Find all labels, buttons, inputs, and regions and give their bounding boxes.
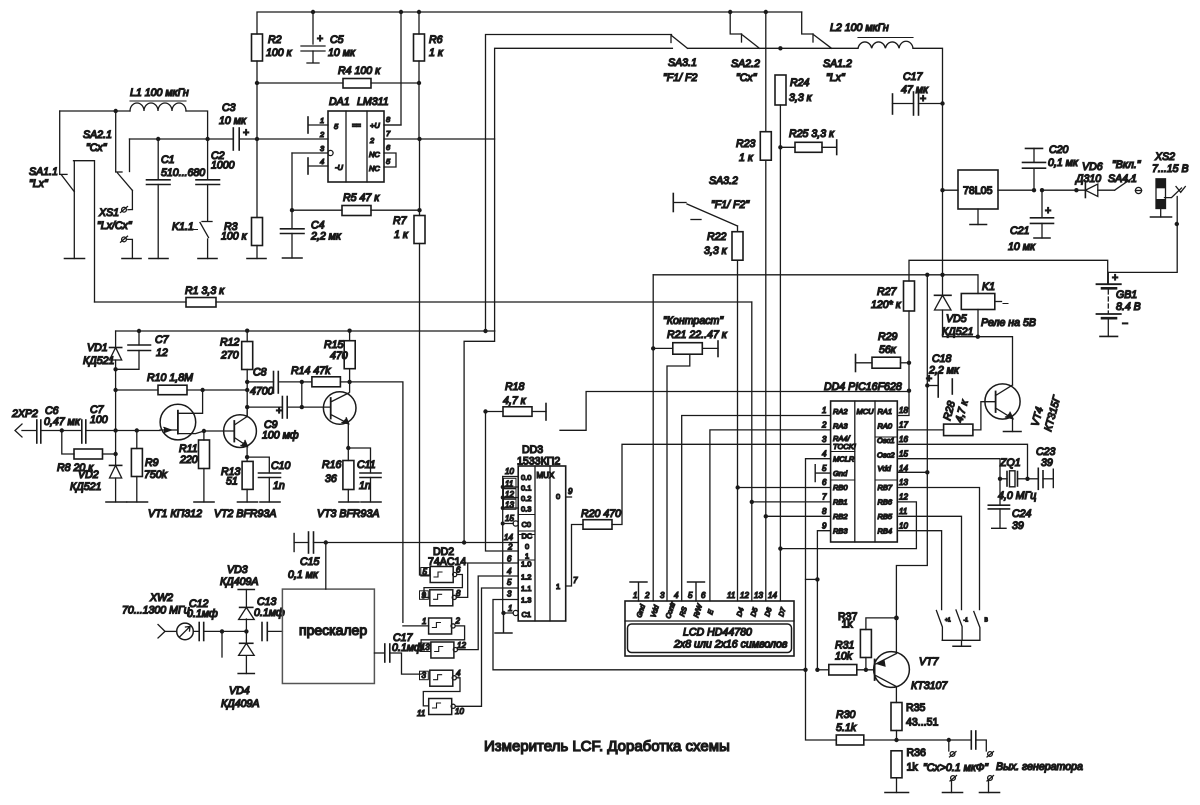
resistor R24	[775, 75, 813, 105]
DD3 output pin 9	[566, 487, 573, 497]
svg-text:1.3: 1.3	[521, 596, 531, 605]
wire inv6 out to DD3 1.1	[455, 588, 518, 706]
svg-text:R35: R35	[906, 702, 926, 714]
display LCD HD44780	[625, 601, 794, 656]
connector XS2 power jack	[1151, 151, 1189, 217]
svg-text:1k: 1k	[907, 762, 919, 774]
capacitor C12	[187, 598, 246, 641]
svg-text:5: 5	[688, 591, 693, 600]
svg-text:0: 0	[556, 492, 560, 501]
svg-text:C20: C20	[1049, 144, 1069, 156]
svg-text:2х8 или 2х16 символов: 2х8 или 2х16 символов	[673, 639, 788, 651]
wire pin18 RA1	[897, 391, 909, 416]
svg-text:R1 3,3 к: R1 3,3 к	[185, 285, 225, 297]
svg-text:3: 3	[660, 591, 665, 600]
wire +5 bus down	[896, 275, 927, 618]
switch SA2.1	[83, 111, 132, 210]
resistor R4	[338, 65, 381, 88]
ground SA1.1	[65, 258, 85, 260]
wire R35 bottom node	[896, 731, 898, 741]
svg-text:SA2.2: SA2.2	[731, 58, 760, 70]
resistor R16	[322, 448, 354, 502]
resistor R37	[838, 611, 896, 670]
svg-text:КТ3107: КТ3107	[911, 680, 948, 692]
svg-text:12: 12	[899, 493, 908, 502]
svg-text:1n: 1n	[273, 480, 285, 492]
svg-text:VD6: VD6	[1082, 161, 1103, 173]
wire pin17 RA0 to R28	[897, 429, 943, 431]
svg-text:R21 22..47 к: R21 22..47 к	[667, 329, 728, 341]
svg-text:5: 5	[822, 464, 827, 473]
svg-text:R18: R18	[505, 381, 525, 393]
svg-text:0.1мф: 0.1мф	[392, 642, 423, 654]
multiplexer DD3 1533КП2	[517, 444, 566, 621]
inverter DD2.5 pins 3 4	[420, 669, 462, 686]
voltage regulator 78L05	[943, 170, 1033, 225]
svg-text:"Сх": "Сх"	[736, 72, 758, 84]
svg-text:14: 14	[768, 591, 777, 600]
capacitor C7 100	[82, 404, 160, 443]
transistor VT1	[160, 390, 234, 440]
svg-text:2ХР2: 2ХР2	[11, 408, 38, 420]
svg-text:MCU: MCU	[857, 407, 875, 416]
wire inv4 out to DD3 1.2	[458, 576, 519, 650]
svg-text:100 к: 100 к	[221, 231, 248, 243]
resistor R13	[221, 457, 253, 502]
capacitor C1	[147, 139, 206, 259]
svg-text:RB5: RB5	[878, 512, 893, 521]
op-amp DA1 comparator	[328, 96, 389, 182]
svg-text:C8: C8	[253, 367, 267, 379]
wire RA2 to LCD RS	[682, 416, 831, 602]
svg-text:12: 12	[740, 591, 749, 600]
svg-text:RB3: RB3	[833, 527, 848, 536]
svg-text:1: 1	[822, 406, 826, 415]
svg-text:R5 47 к: R5 47 к	[343, 192, 380, 204]
svg-text:VD3: VD3	[227, 564, 248, 576]
svg-text:K1.1: K1.1	[172, 221, 194, 233]
diode VD5	[935, 275, 1013, 385]
inductor L2	[830, 22, 913, 48]
svg-text:"Вкл.": "Вкл."	[1112, 159, 1142, 171]
svg-text:5.1k: 5.1k	[836, 722, 857, 734]
resistor R14	[291, 365, 350, 387]
svg-text:220: 220	[179, 454, 198, 466]
wire DA1 pin3 down	[291, 153, 293, 210]
svg-text:14: 14	[504, 533, 513, 542]
svg-text:1533КП2: 1533КП2	[517, 456, 560, 468]
svg-text:RB6: RB6	[878, 498, 893, 507]
resistor R6	[414, 34, 444, 61]
gnd terminal DD4 pin5	[815, 465, 830, 482]
resistor R25	[780, 128, 836, 155]
svg-text:13: 13	[899, 478, 908, 487]
wire A bus to DD3 pin2	[486, 412, 519, 552]
wire top +U rail	[257, 12, 802, 34]
svg-text:39: 39	[1012, 520, 1024, 532]
svg-text:510...680: 510...680	[161, 167, 205, 179]
svg-text:0.1мф: 0.1мф	[254, 607, 285, 619]
svg-text:1000: 1000	[211, 160, 235, 172]
svg-text:2: 2	[319, 130, 325, 139]
svg-text:LCD HD44780: LCD HD44780	[683, 627, 752, 639]
svg-text:R2: R2	[268, 34, 282, 46]
svg-text:R16: R16	[322, 459, 342, 471]
svg-text:1n: 1n	[359, 480, 371, 492]
svg-text:DD4 PIC16F628: DD4 PIC16F628	[824, 381, 902, 393]
svg-text:R27: R27	[877, 286, 898, 298]
svg-text:2,2 мк: 2,2 мк	[310, 231, 342, 243]
svg-text:51: 51	[226, 476, 238, 488]
svg-text:SA3.2: SA3.2	[709, 175, 738, 187]
svg-text:R24: R24	[790, 77, 810, 89]
svg-text:C7: C7	[155, 334, 170, 346]
svg-text:Vdd: Vdd	[878, 464, 892, 473]
ground C11	[361, 501, 381, 503]
svg-text:1: 1	[633, 591, 637, 600]
wire C15 to prescaler	[325, 543, 327, 590]
wire inv5 out wrap to inv6	[423, 678, 460, 706]
svg-text:RB0: RB0	[833, 483, 848, 492]
svg-text:2: 2	[369, 136, 375, 145]
capacitor C15	[288, 532, 326, 581]
svg-text:C1: C1	[161, 154, 175, 166]
wire L1 node row	[60, 111, 208, 139]
resistor R22	[704, 231, 743, 260]
relay contact K1.1	[172, 221, 212, 259]
resistor R20	[581, 444, 831, 529]
svg-text:"F1/ F2": "F1/ F2"	[711, 199, 750, 211]
svg-text:0: 0	[525, 542, 529, 551]
svg-text:VD2: VD2	[78, 469, 99, 481]
svg-text:8: 8	[456, 589, 461, 598]
svg-text:1: 1	[320, 116, 324, 125]
switch SA4.1	[1108, 159, 1142, 194]
wire RB7 pin13	[897, 488, 979, 610]
DD4 left pin labels	[833, 407, 856, 536]
svg-text:11: 11	[899, 507, 907, 516]
svg-text:"Lx/Cx": "Lx/Cx"	[97, 220, 133, 232]
resistor R35	[891, 702, 939, 731]
resistor R23	[736, 132, 771, 164]
switch SA3.2	[673, 175, 750, 226]
svg-text:1 к: 1 к	[739, 152, 754, 164]
wire R27 to GB1 rail	[909, 260, 1108, 284]
ground R36	[885, 792, 909, 794]
wire RB5 pin11	[897, 516, 961, 609]
wire C8 row to C9 row	[301, 382, 303, 407]
pin 4 DA1	[308, 157, 328, 174]
svg-text:1.2: 1.2	[521, 573, 531, 582]
svg-text:9: 9	[822, 521, 827, 530]
wire Osc1 pin16	[897, 444, 1027, 479]
svg-text:КД409А: КД409А	[220, 576, 258, 588]
svg-text:4,7 к: 4,7 к	[503, 395, 527, 407]
node C5 top	[311, 10, 315, 14]
svg-text:56к: 56к	[879, 344, 897, 356]
LCD pin names rotated	[636, 601, 788, 620]
wire RB6 pin12	[780, 502, 916, 549]
capacitor C6	[37, 405, 82, 443]
wire 78L05 input down	[942, 190, 944, 275]
svg-text:+: +	[243, 127, 249, 139]
svg-text:VT3 BFR93A: VT3 BFR93A	[317, 508, 379, 520]
ground R3	[247, 258, 266, 260]
DD3 ground bus pins 10 11 12 13 15 1	[501, 477, 519, 616]
svg-text:C11: C11	[357, 459, 376, 471]
svg-text:RB7: RB7	[878, 483, 893, 492]
svg-text:7: 7	[822, 493, 827, 502]
svg-text:C5: C5	[330, 34, 344, 46]
capacitor C17 prescaler out	[374, 632, 422, 674]
potentiometer R21 Контраст	[653, 315, 728, 601]
capacitor C23	[1028, 446, 1056, 489]
resistor R36	[891, 747, 926, 793]
svg-text:3: 3	[422, 671, 427, 680]
pin 6 5 DA1 NC loop	[384, 143, 396, 167]
ground C10	[260, 501, 280, 503]
wire Osc2 pin15	[897, 459, 1000, 479]
capacitor C5	[301, 12, 356, 63]
capacitor C9	[247, 397, 331, 442]
svg-text:RA2: RA2	[833, 407, 848, 416]
capacitor C20	[1023, 144, 1079, 190]
svg-text:C10: C10	[271, 460, 291, 472]
diode VD2	[70, 465, 122, 502]
capacitor C8	[247, 367, 302, 398]
svg-text:VT7: VT7	[919, 656, 940, 668]
svg-text:GB1: GB1	[1116, 289, 1137, 301]
svg-text:1.1: 1.1	[521, 584, 531, 593]
svg-text:Д310: Д310	[1075, 173, 1101, 185]
svg-text:1 к: 1 к	[394, 229, 409, 241]
svg-text:R23: R23	[736, 138, 756, 150]
switch S1 RB4	[936, 611, 951, 641]
capacitor C3	[219, 102, 249, 150]
svg-text:R4 100 к: R4 100 к	[338, 65, 381, 77]
svg-text:1: 1	[556, 582, 560, 591]
svg-text:C15: C15	[300, 556, 320, 568]
wire rail 331	[116, 330, 495, 332]
wire R2 bottom to R4 rail	[256, 61, 258, 139]
switch S2 RB5	[956, 610, 968, 640]
svg-text:0,1 мк: 0,1 мк	[288, 569, 319, 581]
inverter DD2.3 pins 1 2	[422, 617, 461, 635]
svg-text:10: 10	[899, 521, 908, 530]
svg-text:+1: +1	[945, 618, 951, 624]
svg-text:100 к: 100 к	[266, 47, 293, 59]
block прескалер	[282, 589, 374, 683]
svg-text:0,47 мк: 0,47 мк	[44, 416, 81, 428]
svg-text:1.0: 1.0	[521, 560, 531, 569]
svg-text:-1: -1	[964, 618, 969, 624]
wire R5 row	[292, 209, 420, 211]
svg-text:R29: R29	[878, 331, 898, 343]
ground R13	[238, 501, 258, 503]
inductor L1	[130, 87, 189, 111]
capacitor C4	[281, 210, 342, 258]
svg-text:TOCKI: TOCKI	[833, 442, 856, 451]
svg-text:"Lx": "Lx"	[29, 178, 49, 190]
wire R24 bottom / D7 bus top	[779, 105, 781, 601]
resistor R27	[871, 281, 915, 311]
svg-text:70...1300 МГц: 70...1300 МГц	[122, 605, 190, 617]
pin 8 DA1	[384, 115, 401, 125]
switch SA3.1	[663, 35, 697, 84]
wire link MCLR-RB3	[806, 578, 818, 580]
wire +U to DA1 pin8	[384, 12, 401, 125]
resistor R28	[941, 398, 995, 436]
svg-text:0,1 мк: 0,1 мк	[1048, 157, 1079, 169]
svg-text:ZQ1: ZQ1	[999, 457, 1021, 469]
node R2/R4	[255, 81, 259, 85]
svg-text:+: +	[1112, 272, 1118, 284]
svg-text:NC: NC	[369, 164, 380, 173]
capacitor C13	[254, 596, 285, 641]
svg-text:8: 8	[822, 507, 827, 516]
svg-text:КД521: КД521	[83, 355, 114, 367]
wire DD3 1.3 to rail	[493, 600, 806, 670]
svg-text:MUX: MUX	[537, 471, 555, 480]
resistor R11	[179, 431, 210, 502]
ground R11	[194, 501, 214, 503]
wire inv2 out to DD3 1.0	[456, 563, 518, 597]
resistor R18	[486, 381, 547, 420]
svg-text:C0: C0	[522, 520, 532, 529]
ground XS1	[122, 258, 141, 260]
svg-text:NC: NC	[369, 150, 380, 159]
svg-text:14: 14	[899, 464, 908, 473]
svg-text:XW2: XW2	[149, 592, 173, 604]
svg-text:3: 3	[822, 435, 827, 444]
ground R9	[127, 501, 148, 503]
svg-text:C18: C18	[932, 353, 952, 365]
DD4 pin numbers	[821, 406, 908, 530]
svg-text:−: −	[1122, 318, 1128, 330]
wire XS2 pin bent	[1165, 188, 1182, 198]
svg-text:"Сх>0.1 мкФ": "Сх>0.1 мкФ"	[923, 762, 989, 774]
svg-text:SA4.1: SA4.1	[1108, 173, 1137, 185]
DD3 input labels	[518, 473, 560, 619]
svg-text:RA0: RA0	[878, 422, 893, 431]
resistor R31	[817, 640, 874, 676]
diode VD6	[1082, 161, 1115, 198]
svg-text:DD3: DD3	[522, 444, 543, 456]
svg-text:LM311: LM311	[357, 96, 389, 108]
wire output row	[897, 739, 972, 741]
wire SA3.1 upper bus A	[486, 35, 672, 332]
svg-text:L1 100 мкГн: L1 100 мкГн	[130, 87, 189, 99]
svg-text:4: 4	[822, 449, 827, 458]
diode VD4	[221, 631, 259, 710]
switch SA1.2	[802, 12, 852, 84]
wire RA1 net	[560, 392, 909, 431]
wire VD1 line down	[115, 369, 117, 465]
resistor R10	[116, 372, 248, 395]
svg-text:C17: C17	[903, 71, 924, 83]
svg-text:10 мк: 10 мк	[1008, 241, 1036, 253]
svg-text:6: 6	[701, 591, 706, 600]
svg-text:6: 6	[456, 566, 461, 575]
svg-text:SA2.1: SA2.1	[83, 129, 112, 141]
svg-text:1 к: 1 к	[429, 47, 444, 59]
svg-text:12: 12	[156, 347, 168, 359]
svg-text:13: 13	[754, 591, 763, 600]
svg-text:2: 2	[644, 591, 650, 600]
svg-text:15: 15	[899, 449, 908, 458]
svg-text:Osc2: Osc2	[877, 451, 895, 460]
wire R1 row	[95, 301, 752, 303]
svg-text:RA1: RA1	[878, 407, 893, 416]
svg-text:10 мк: 10 мк	[219, 115, 247, 127]
resistor R7	[393, 215, 425, 244]
svg-text:4: 4	[320, 157, 324, 166]
svg-text:6: 6	[822, 478, 827, 487]
svg-text:120* к: 120* к	[871, 299, 902, 311]
svg-text:"Контраст": "Контраст"	[663, 315, 724, 327]
capacitor C21	[1008, 190, 1054, 253]
pin 2 DA1	[257, 130, 328, 139]
svg-text:13: 13	[505, 500, 514, 509]
svg-text:2: 2	[455, 617, 461, 626]
svg-text:10: 10	[455, 707, 464, 716]
svg-text:XS1: XS1	[98, 207, 119, 219]
svg-text:2,2 мк: 2,2 мк	[928, 365, 960, 377]
svg-text:4: 4	[456, 669, 461, 678]
wire LCD D5 line	[751, 302, 753, 601]
jack sleeve 1	[943, 776, 963, 793]
svg-text:"Сх": "Сх"	[86, 142, 108, 154]
wire to VD6	[1042, 189, 1085, 191]
svg-text:18: 18	[899, 406, 908, 415]
svg-text:SA3.1: SA3.1	[668, 57, 697, 69]
svg-text:750k: 750k	[144, 469, 168, 481]
svg-text:100: 100	[90, 414, 108, 426]
svg-text:C1: C1	[522, 610, 532, 619]
node R24 top	[778, 46, 782, 50]
svg-text:36: 36	[325, 473, 337, 485]
ground VT4	[1004, 431, 1022, 433]
connector XW2	[122, 592, 193, 640]
transistor VT4	[985, 384, 1064, 433]
svg-text:R6: R6	[429, 34, 443, 46]
ground C2	[198, 258, 217, 260]
ground switches	[953, 645, 971, 647]
svg-text:10k: 10k	[835, 651, 853, 663]
wire RB2 pin8 to D6	[766, 515, 831, 517]
resistor R15	[324, 331, 355, 392]
wire +V rail 274	[653, 275, 978, 294]
svg-text:КД521: КД521	[942, 326, 973, 338]
wire R14 row to R7 line	[350, 382, 403, 623]
wire C15 node to inv3 input	[403, 625, 429, 627]
svg-text:VT2 BFR93A: VT2 BFR93A	[214, 508, 276, 520]
svg-text:13: 13	[421, 643, 430, 652]
svg-text:4700: 4700	[250, 386, 274, 398]
svg-text:5: 5	[423, 568, 428, 577]
svg-text:1: 1	[508, 604, 512, 613]
svg-text:R9: R9	[145, 457, 159, 469]
svg-text:4: 4	[507, 567, 512, 576]
pin 7 DA1 output wire	[384, 129, 495, 141]
wire inv3 out wrap to inv4	[421, 626, 465, 647]
svg-text:10: 10	[505, 467, 514, 476]
pin 3 DA1	[292, 144, 333, 156]
svg-text:"F1/ F2: "F1/ F2	[663, 72, 697, 84]
DD3 pin numbers	[504, 467, 517, 613]
resistor R2	[252, 34, 293, 61]
inverter DD2.2 pins 9 8	[420, 589, 462, 606]
